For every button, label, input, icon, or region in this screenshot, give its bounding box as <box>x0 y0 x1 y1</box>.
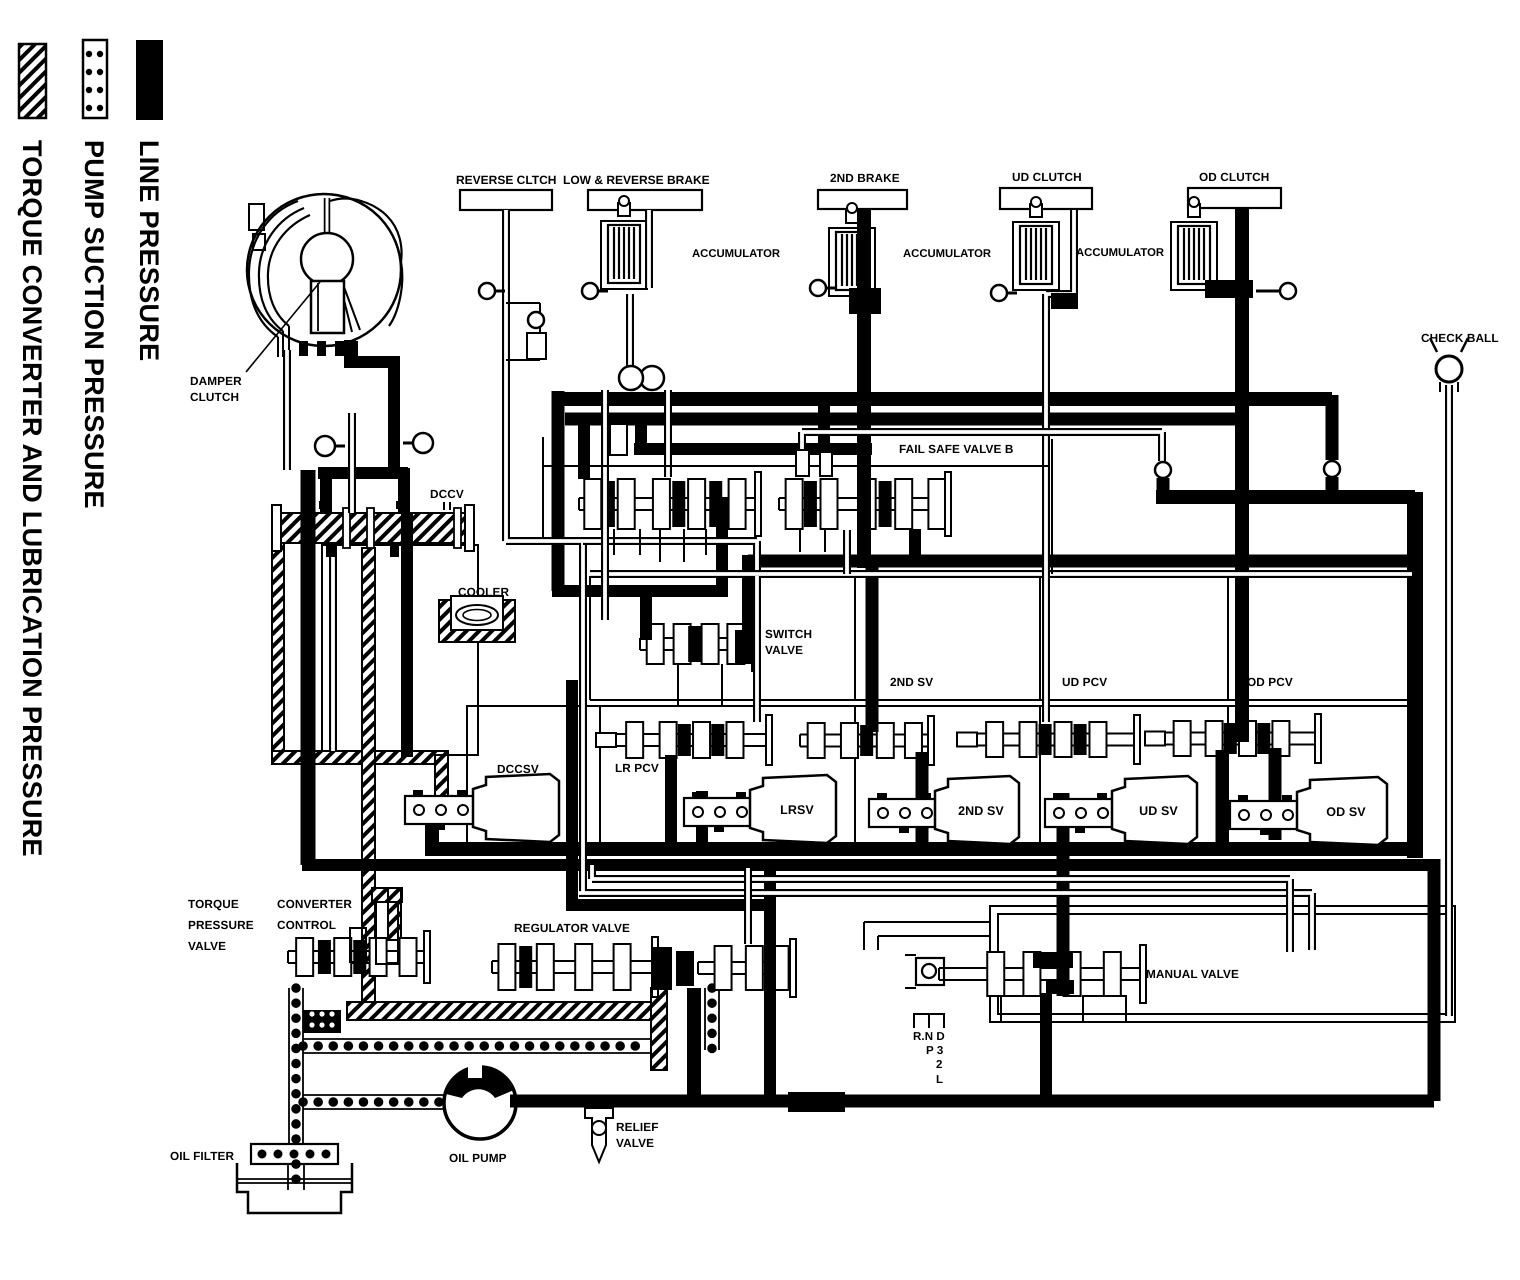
svg-text:ACCUMULATOR: ACCUMULATOR <box>692 248 780 260</box>
svg-text:CLUTCH: CLUTCH <box>190 390 239 404</box>
svg-text:TORQUE: TORQUE <box>188 897 239 911</box>
svg-text:CONVERTER: CONVERTER <box>277 897 352 911</box>
svg-text:P 3: P 3 <box>926 1045 943 1057</box>
switch valve thin downs <box>678 664 722 706</box>
accumulator od <box>1171 222 1217 290</box>
svg-text:OD CLUTCH: OD CLUTCH <box>1199 170 1269 184</box>
ud clutch bar <box>1000 188 1092 209</box>
thick stub ball to H2 <box>1157 478 1170 497</box>
svg-text:DAMPER: DAMPER <box>190 374 242 388</box>
svg-text:REVERSE CLTCH: REVERSE CLTCH <box>456 173 556 187</box>
DCCV plates <box>343 508 350 548</box>
svg-text:LRSV: LRSV <box>780 803 814 817</box>
svg-text:REGULATOR VALVE: REGULATOR VALVE <box>514 921 630 935</box>
damper clutch leader line <box>246 282 320 372</box>
ball junction low-reverse <box>640 366 664 390</box>
svg-text:MANUAL VALVE: MANUAL VALVE <box>1146 967 1239 981</box>
UD SV solenoid <box>1045 799 1117 827</box>
thick DCCSV flange down stub <box>425 818 439 849</box>
svg-text:2ND BRAKE: 2ND BRAKE <box>830 171 900 185</box>
converter stem <box>324 198 331 240</box>
od accumulator black connector <box>1205 280 1253 298</box>
ball 2nd brake <box>826 287 836 290</box>
thick corner H3 to FSV-A <box>578 413 590 479</box>
hatched band DCCV valve body <box>281 513 465 543</box>
svg-text:FAIL SAFE VALVE B: FAIL SAFE VALVE B <box>899 442 1013 456</box>
hatched band regulator vertical <box>651 988 667 1070</box>
low-reverse brake bar <box>588 190 702 210</box>
ball fsvb right <box>1155 462 1171 478</box>
check ball <box>1430 338 1468 352</box>
oil filter stub dotted <box>291 1164 301 1190</box>
thick od lower vertical <box>1222 748 1275 850</box>
ball on H1 corner <box>1324 461 1340 477</box>
svg-text:TORQUE CONVERTER AND LUBRICATI: TORQUE CONVERTER AND LUBRICATION PRESSUR… <box>17 140 47 857</box>
converter control detail <box>376 902 398 964</box>
hatched band left vertical <box>272 543 284 758</box>
fsvb top fittings <box>796 450 809 476</box>
converter left tabs <box>249 204 264 230</box>
thick lr down verticals <box>671 755 702 851</box>
thin2 below DCCV <box>329 545 337 751</box>
switch valve spool <box>640 638 752 650</box>
LRSV solenoid <box>684 798 756 826</box>
thick line H1 top <box>553 392 1332 406</box>
hatched band stub to DCCSV <box>435 755 448 800</box>
thick bottom main line <box>510 1095 1434 1108</box>
2ND spool <box>800 735 928 747</box>
ball converter right <box>403 442 413 445</box>
reverse bypass loop <box>506 303 540 360</box>
thick left vertical <box>301 470 316 865</box>
svg-text:2ND SV: 2ND SV <box>890 675 933 689</box>
thick 2nd brake vertical lower <box>866 566 879 732</box>
thick line H6 <box>302 859 1434 871</box>
svg-text:PUMP SUCTION PRESSURE: PUMP SUCTION PRESSURE <box>79 140 109 509</box>
svg-text:CHECK BALL: CHECK BALL <box>1421 331 1499 345</box>
hatched band left horizontal <box>272 751 448 764</box>
thick converter H <box>318 467 408 479</box>
suction strainer block <box>303 1010 341 1033</box>
hatched band bottom horizontal <box>347 1002 652 1020</box>
thick switch valve left drop <box>640 591 652 640</box>
manual valve box <box>990 906 1455 1022</box>
manual thin line 2 <box>592 865 1290 952</box>
thick right lower vertical V3 <box>1428 859 1441 1101</box>
ball od <box>1256 290 1280 293</box>
thick line H5 <box>425 842 1415 856</box>
thin FSV-B box right edge <box>1051 439 1053 574</box>
converter studs <box>299 341 308 356</box>
ball ud <box>1007 292 1017 295</box>
accumulator ud <box>1013 222 1059 290</box>
ball reverse clutch line <box>495 290 505 293</box>
svg-text:OD SV: OD SV <box>1326 805 1366 819</box>
oil pan <box>237 1163 352 1213</box>
svg-text:LOW & REVERSE BRAKE: LOW & REVERSE BRAKE <box>563 173 710 187</box>
ball converter left <box>335 445 345 448</box>
svg-text:OIL PUMP: OIL PUMP <box>449 1151 507 1165</box>
reverse bypass ball <box>528 312 544 328</box>
thin fsvb down <box>843 530 851 574</box>
thick switch valve down <box>566 680 578 911</box>
dotted suction line horizontal upper <box>303 1038 650 1040</box>
torque pressure valve spool <box>288 951 424 963</box>
reverse clutch bar <box>460 190 552 210</box>
DCCSV solenoid <box>405 796 477 824</box>
fsva thin downs <box>614 529 706 562</box>
thick vertical x694 <box>687 988 701 1101</box>
oil filter bar <box>251 1144 338 1164</box>
2nd accumulator black connector <box>849 288 881 314</box>
thick vertical x410 <box>401 513 413 757</box>
converter thin feed <box>348 413 356 513</box>
low-reverse brake thin lines <box>645 210 653 288</box>
relief valve <box>585 1108 613 1162</box>
fail safe valve B spool <box>779 498 945 510</box>
svg-text:RELIEF: RELIEF <box>616 1120 659 1134</box>
thick od clutch vertical <box>1235 208 1249 742</box>
svg-text:COOLER: COOLER <box>458 585 509 599</box>
thick line H2 <box>1156 490 1415 504</box>
fail safe valve A spool <box>579 498 755 510</box>
svg-text:LINE PRESSURE: LINE PRESSURE <box>134 140 164 361</box>
thick line H4b <box>748 555 1412 568</box>
thin branch to box top <box>583 541 757 574</box>
svg-text:VALVE: VALVE <box>616 1136 654 1150</box>
ball low-reverse <box>598 290 608 293</box>
thick FSVB down stub <box>909 529 921 558</box>
regulator valve spool <box>492 961 652 973</box>
svg-text:ACCUMULATOR: ACCUMULATOR <box>903 248 991 260</box>
2ND SV solenoid <box>869 799 941 827</box>
svg-text:VALVE: VALVE <box>765 643 803 657</box>
svg-text:2: 2 <box>936 1059 943 1071</box>
svg-text:DCCV: DCCV <box>430 487 464 501</box>
DCCV bottom stubs <box>326 543 335 557</box>
svg-text:CONTROL: CONTROL <box>277 918 336 932</box>
accumulator low-reverse <box>601 221 647 289</box>
UD PCV spool <box>975 734 1134 746</box>
cooler <box>439 600 515 642</box>
thick switch feed horizontal <box>552 585 728 597</box>
oil pump <box>444 1067 516 1139</box>
dotted suction line horizontal lower <box>303 1094 444 1096</box>
svg-text:UD PCV: UD PCV <box>1062 675 1107 689</box>
thick vertical from H1 left <box>552 391 565 591</box>
svg-text:OD PCV: OD PCV <box>1247 675 1293 689</box>
regulator up thin <box>744 868 752 944</box>
hatched elbow converter control <box>372 888 402 902</box>
accumulator 2nd <box>829 228 875 296</box>
shift gate <box>914 1014 944 1028</box>
lower valve box row <box>467 706 1408 843</box>
thick 2nd brake vertical upper <box>857 209 871 568</box>
thick converter elbow <box>344 340 394 470</box>
fsvb thin downs <box>800 529 825 552</box>
thick regulator vertical <box>764 868 776 1101</box>
legend torque-converter swatch <box>19 44 46 118</box>
OD PCV spool <box>1163 733 1315 745</box>
converter thin left <box>283 350 291 470</box>
svg-text:DCCSV: DCCSV <box>497 762 539 776</box>
thick right vertical V2 <box>1407 492 1423 858</box>
box top double line <box>590 570 1412 578</box>
hatched band long vertical <box>362 548 375 1014</box>
thick corner right of H1 <box>1326 395 1339 503</box>
left box below DCCV <box>322 545 478 755</box>
thick H7 to regulator <box>566 899 770 911</box>
dotted suction line regulator vertical <box>704 988 706 1050</box>
dotted suction line vertical left <box>288 988 290 1148</box>
thick line H3 <box>565 413 1236 426</box>
legend line-pressure swatch <box>136 40 163 120</box>
ud accumulator black connector <box>1051 293 1078 309</box>
thin FSV box line <box>543 437 1050 537</box>
svg-text:ACCUMULATOR: ACCUMULATOR <box>1076 247 1164 259</box>
legend pump-suction swatch <box>83 40 107 118</box>
lr cartridge <box>610 424 627 455</box>
svg-text:L: L <box>936 1074 943 1086</box>
2nd brake bar <box>818 190 907 209</box>
torque converter housing <box>247 194 401 346</box>
svg-text:PRESSURE: PRESSURE <box>188 918 254 932</box>
LR PCV spool <box>614 734 766 746</box>
DCCV valve end plates <box>272 505 281 551</box>
thick H4b corner to switch valve <box>742 555 754 640</box>
thick line over FSV-A <box>634 415 872 449</box>
manual valve left nested lines <box>864 922 990 950</box>
ud clutch thin line <box>1046 210 1074 722</box>
thick ud lower vertical <box>1057 793 1070 996</box>
thick DCCV feeds <box>326 468 404 513</box>
svg-text:UD CLUTCH: UD CLUTCH <box>1012 170 1082 184</box>
thick manual to bottom vertical <box>1040 993 1052 1101</box>
svg-text:LR PCV: LR PCV <box>615 761 659 775</box>
svg-text:SWITCH: SWITCH <box>765 627 812 641</box>
svg-text:UD SV: UD SV <box>1139 804 1178 818</box>
fsvb right thin line <box>802 432 1162 474</box>
svg-text:R.N D: R.N D <box>913 1031 945 1043</box>
thick 2nd down to H5 <box>916 752 929 851</box>
lr pcv feed thin <box>753 576 761 722</box>
thick bottom accent blob <box>788 1092 845 1112</box>
svg-text:2ND SV: 2ND SV <box>958 804 1004 818</box>
check ball thin line <box>1445 385 1453 1016</box>
OD SV solenoid <box>1230 801 1302 829</box>
turbine rect <box>311 281 344 333</box>
reverse clutch thin line <box>506 210 1312 950</box>
od clutch bar <box>1188 188 1281 208</box>
thick H1 to FSV-B stub <box>818 395 830 449</box>
svg-text:OIL FILTER: OIL FILTER <box>170 1149 235 1163</box>
manual valve spool <box>916 958 944 985</box>
upper valve box row <box>590 576 1408 700</box>
damper clutch ball <box>301 233 353 285</box>
thick FSV-A down vertical <box>716 498 728 591</box>
svg-text:VALVE: VALVE <box>188 939 226 953</box>
